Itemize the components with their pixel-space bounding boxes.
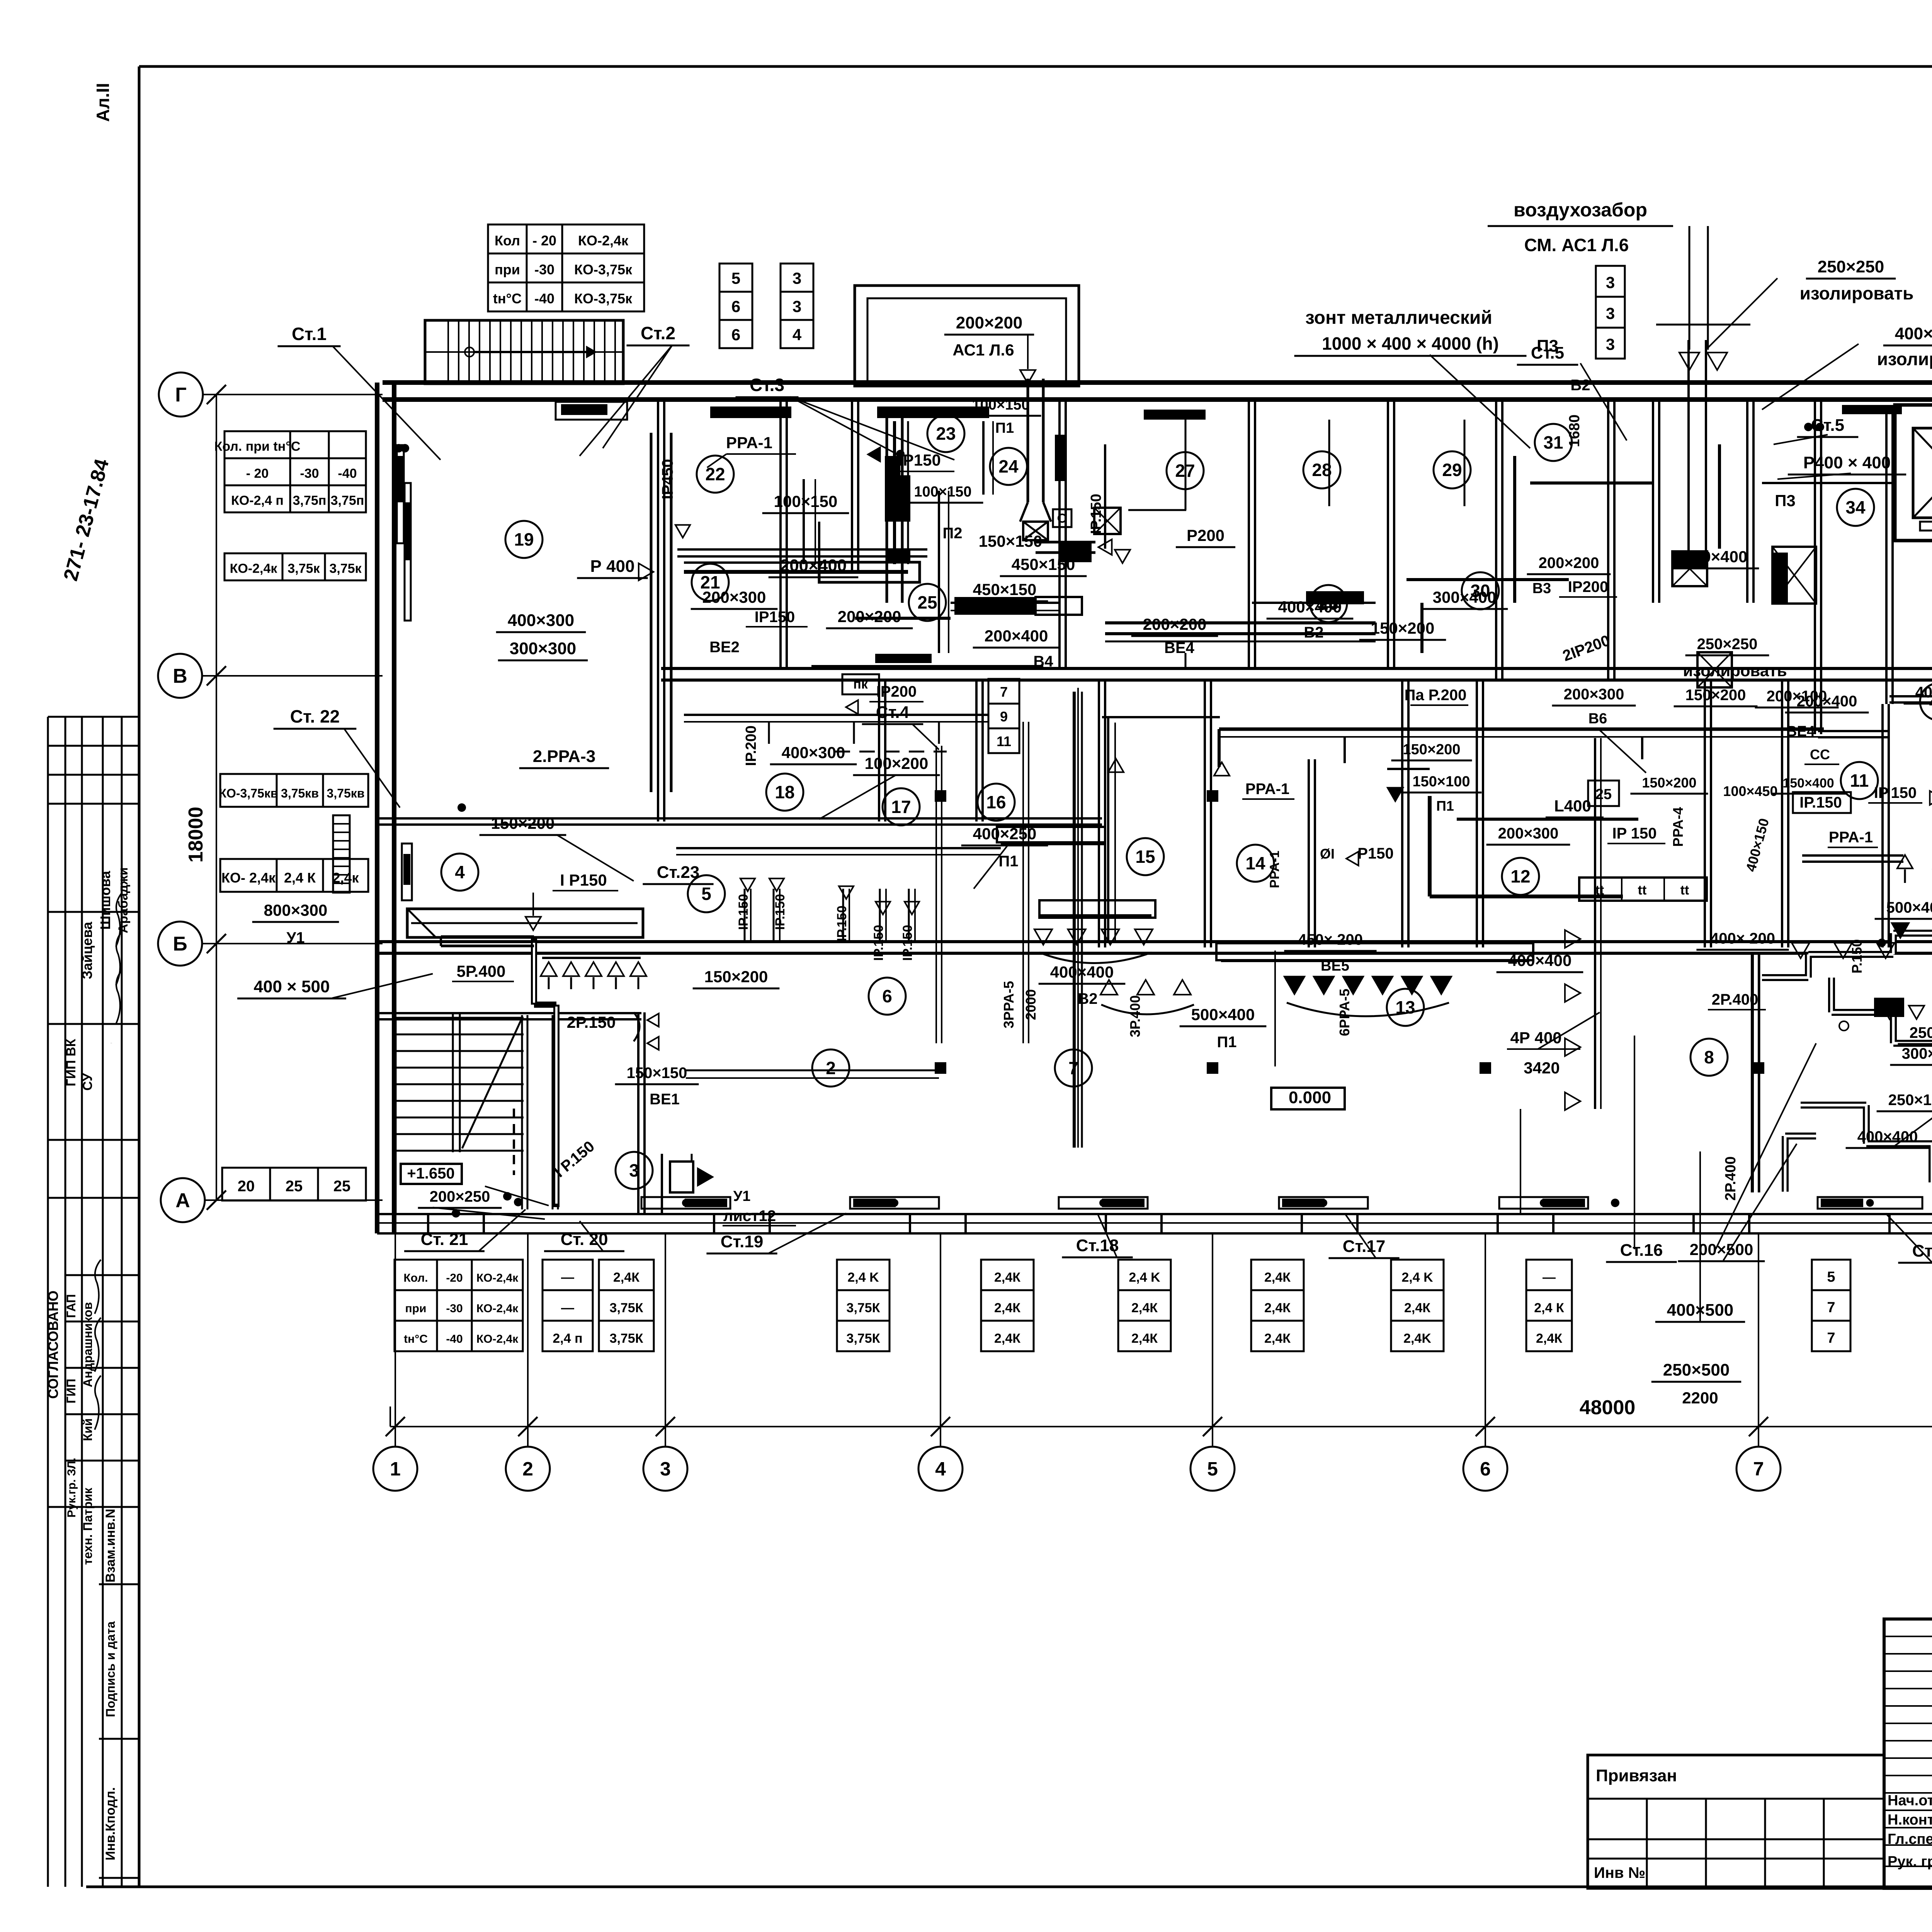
svg-text:- 20: - 20 — [532, 233, 556, 248]
svg-text:400 × 500: 400 × 500 — [254, 977, 330, 996]
svg-text:3420: 3420 — [1524, 1059, 1560, 1077]
svg-text:СУ: СУ — [80, 1073, 95, 1091]
svg-text:18000: 18000 — [185, 807, 207, 863]
svg-text:КО-3,75к: КО-3,75к — [574, 291, 633, 306]
svg-text:КО-2,4к: КО-2,4к — [578, 233, 629, 248]
svg-text:19: 19 — [514, 529, 534, 549]
svg-text:3,75п: 3,75п — [293, 493, 327, 508]
svg-text:при: при — [495, 262, 520, 277]
svg-text:25: 25 — [1595, 786, 1612, 803]
svg-text:5: 5 — [1207, 1458, 1218, 1480]
svg-text:5Р.400: 5Р.400 — [457, 962, 506, 980]
svg-text:Ст.3: Ст.3 — [750, 375, 784, 395]
svg-text:3,75к: 3,75к — [287, 561, 320, 576]
svg-text:Ст. 20: Ст. 20 — [561, 1230, 608, 1249]
svg-text:tt: tt — [1595, 883, 1604, 898]
svg-text:200×400: 200×400 — [1797, 693, 1857, 710]
svg-text:Кий: Кий — [81, 1418, 95, 1441]
svg-text:27: 27 — [1175, 461, 1195, 481]
svg-text:250×500: 250×500 — [1663, 1361, 1730, 1379]
svg-text:150×200: 150×200 — [1403, 742, 1461, 758]
svg-text:100×150: 100×150 — [914, 484, 972, 500]
svg-text:Ст. 21: Ст. 21 — [421, 1230, 468, 1249]
svg-text:7: 7 — [1827, 1299, 1835, 1316]
svg-text:6: 6 — [731, 298, 740, 316]
svg-text:IР.150: IР.150 — [736, 894, 751, 930]
svg-text:В2: В2 — [1570, 377, 1590, 394]
svg-text:5: 5 — [701, 884, 711, 904]
svg-text:2,4K: 2,4K — [1403, 1331, 1431, 1346]
svg-text:КО-2,4к: КО-2,4к — [476, 1302, 519, 1315]
svg-text:Ст.5: Ст.5 — [1531, 344, 1564, 362]
svg-text:Р200: Р200 — [1187, 526, 1225, 544]
svg-text:-40: -40 — [338, 466, 357, 481]
svg-text:пк: пк — [853, 677, 868, 692]
svg-text:5: 5 — [731, 269, 740, 287]
svg-text:4: 4 — [935, 1458, 946, 1480]
svg-text:IP450: IP450 — [659, 459, 676, 500]
svg-text:3,75п: 3,75п — [331, 493, 364, 508]
svg-text:450×150: 450×150 — [1012, 555, 1075, 573]
svg-text:воздухозабор: воздухозабор — [1514, 199, 1647, 221]
svg-text:26: 26 — [1318, 594, 1338, 614]
svg-text:1: 1 — [390, 1458, 401, 1480]
svg-text:150×100: 150×100 — [1413, 774, 1470, 790]
svg-text:tt: tt — [1638, 883, 1647, 898]
svg-text:2,4К: 2,4К — [1131, 1331, 1158, 1346]
svg-text:6: 6 — [731, 326, 740, 344]
svg-text:Ст.4: Ст.4 — [876, 703, 910, 722]
svg-text:2Р.400: 2Р.400 — [1723, 1156, 1739, 1201]
svg-text:8: 8 — [1704, 1047, 1714, 1067]
svg-text:200×400: 200×400 — [780, 556, 847, 575]
svg-text:17: 17 — [891, 797, 911, 817]
svg-text:2.РРА-3: 2.РРА-3 — [533, 747, 595, 766]
svg-text:Кол.: Кол. — [403, 1272, 428, 1284]
svg-text:КО-2,4к: КО-2,4к — [230, 561, 278, 576]
svg-text:П1: П1 — [1217, 1034, 1237, 1051]
svg-text:400×400: 400×400 — [1050, 963, 1114, 981]
svg-text:КО- 2,4к: КО- 2,4к — [221, 870, 276, 886]
svg-text:I Р150: I Р150 — [560, 871, 607, 889]
svg-text:ВЕ4: ВЕ4 — [1164, 639, 1195, 656]
svg-text:IР.150: IР.150 — [1088, 494, 1104, 534]
svg-text:—: — — [561, 1301, 574, 1315]
svg-text:2,4 K: 2,4 K — [1401, 1270, 1433, 1285]
svg-text:100×150: 100×150 — [774, 492, 838, 510]
svg-text:3,75кв: 3,75кв — [327, 786, 365, 800]
svg-text:30: 30 — [1470, 581, 1490, 601]
svg-text:24: 24 — [998, 456, 1019, 476]
svg-text:18: 18 — [775, 782, 794, 802]
svg-text:IP150: IP150 — [755, 609, 795, 626]
svg-text:Кол: Кол — [495, 233, 520, 248]
svg-text:150×200: 150×200 — [1685, 687, 1746, 704]
svg-text:3,75к: 3,75к — [329, 561, 362, 576]
svg-text:9: 9 — [1000, 709, 1008, 724]
svg-text:Взам.инв.N: Взам.инв.N — [103, 1509, 118, 1583]
svg-text:2: 2 — [826, 1058, 836, 1078]
svg-text:РРА-1: РРА-1 — [1829, 829, 1873, 846]
svg-text:2,4К: 2,4К — [1264, 1301, 1291, 1315]
svg-text:4: 4 — [455, 862, 465, 882]
svg-text:200×300: 200×300 — [1564, 686, 1624, 703]
svg-text:3,75кв: 3,75кв — [281, 786, 319, 800]
svg-text:-40: -40 — [446, 1333, 463, 1345]
svg-text:2Р.150: 2Р.150 — [567, 1013, 616, 1031]
svg-text:Зайцева: Зайцева — [79, 922, 95, 980]
svg-text:3,75К: 3,75К — [847, 1331, 880, 1346]
svg-text:Гл.спец.: Гл.спец. — [1888, 1831, 1932, 1847]
svg-text:IP.200: IP.200 — [743, 726, 759, 766]
svg-text:3: 3 — [1606, 274, 1615, 292]
svg-text:2,4К: 2,4К — [1264, 1270, 1291, 1285]
svg-text:150×200: 150×200 — [1642, 775, 1696, 791]
svg-text:У1: У1 — [286, 929, 304, 946]
svg-text:Ст.23: Ст.23 — [657, 863, 700, 882]
svg-text:tн°С: tн°С — [493, 291, 522, 306]
svg-text:21: 21 — [700, 572, 720, 592]
svg-text:IР.150: IР.150 — [900, 925, 915, 961]
svg-text:Рук. гр.: Рук. гр. — [1888, 1854, 1932, 1870]
svg-text:200×200: 200×200 — [838, 607, 901, 626]
svg-text:КО-3,75кв: КО-3,75кв — [219, 786, 278, 800]
svg-text:Па Р.200: Па Р.200 — [1405, 687, 1467, 704]
svg-text:11: 11 — [997, 733, 1011, 749]
svg-text:300×300: 300×300 — [510, 639, 577, 658]
svg-text:Ст.5: Ст.5 — [1811, 416, 1844, 435]
svg-text:Нач.отд: Нач.отд — [1888, 1793, 1932, 1809]
svg-text:РРА-1: РРА-1 — [1245, 781, 1289, 798]
svg-text:6: 6 — [1480, 1458, 1491, 1480]
svg-text:150×400: 150×400 — [1782, 776, 1834, 791]
svg-text:23: 23 — [936, 423, 956, 444]
svg-text:400×300: 400×300 — [782, 743, 845, 762]
svg-text:3: 3 — [793, 269, 801, 287]
svg-text:3Р.400: 3Р.400 — [1127, 995, 1143, 1037]
svg-text:—: — — [561, 1270, 574, 1285]
svg-text:20: 20 — [238, 1178, 255, 1195]
svg-text:В2: В2 — [1304, 624, 1323, 641]
svg-text:250×250: 250×250 — [1697, 636, 1758, 653]
svg-text:13: 13 — [1395, 997, 1415, 1017]
svg-text:300×400: 300×400 — [1684, 548, 1748, 566]
svg-text:2,4К: 2,4К — [1536, 1331, 1562, 1346]
svg-text:2Р.400: 2Р.400 — [1712, 991, 1759, 1008]
svg-text:-30: -30 — [534, 262, 554, 277]
svg-text:Привязан: Привязан — [1596, 1766, 1677, 1785]
svg-text:12: 12 — [1510, 866, 1530, 886]
svg-text:зонт металлический: зонт металлический — [1305, 308, 1492, 328]
svg-text:4Р 400: 4Р 400 — [1510, 1029, 1561, 1047]
svg-text:КО-2,4 п: КО-2,4 п — [231, 493, 284, 508]
svg-text:15: 15 — [1135, 847, 1155, 867]
svg-text:IP200: IP200 — [1568, 578, 1609, 595]
svg-text:400×250: 400×250 — [973, 825, 1037, 843]
svg-text:2,4К: 2,4К — [994, 1270, 1020, 1285]
svg-text:Кол. при tн°С: Кол. при tн°С — [214, 439, 301, 454]
svg-text:200×500: 200×500 — [1690, 1240, 1753, 1259]
svg-text:200×300: 200×300 — [1498, 825, 1559, 842]
svg-text:П3: П3 — [1775, 492, 1796, 510]
svg-text:450×150: 450×150 — [973, 580, 1037, 599]
svg-text:-30: -30 — [300, 466, 319, 481]
svg-text:3: 3 — [660, 1458, 671, 1480]
svg-text:2,4К: 2,4К — [994, 1301, 1020, 1315]
svg-text:изолировать: изолировать — [1683, 662, 1787, 680]
svg-text:2,4К: 2,4К — [1131, 1301, 1158, 1315]
svg-text:В4: В4 — [1033, 653, 1053, 670]
svg-text:+1.650: +1.650 — [407, 1165, 454, 1182]
svg-text:IР200: IР200 — [876, 683, 917, 700]
svg-text:150×200: 150×200 — [1371, 619, 1435, 637]
svg-text:изолировать: изолировать — [1800, 283, 1914, 303]
svg-text:АС1 Л.6: АС1 Л.6 — [952, 341, 1014, 359]
svg-text:Р400 × 400: Р400 × 400 — [1803, 453, 1891, 472]
svg-text:2200: 2200 — [1682, 1389, 1718, 1407]
svg-text:Инв.Кподл.: Инв.Кподл. — [103, 1787, 118, 1861]
svg-text:РРА-4: РРА-4 — [1670, 807, 1686, 847]
svg-text:300×250: 300×250 — [1902, 1045, 1932, 1062]
svg-text:400×400: 400×400 — [1895, 324, 1932, 343]
svg-text:29: 29 — [1442, 460, 1462, 480]
svg-text:5: 5 — [1827, 1269, 1835, 1285]
svg-text:СМ. АС1 Л.6: СМ. АС1 Л.6 — [1524, 235, 1629, 255]
svg-text:В6: В6 — [1588, 711, 1607, 727]
svg-text:4: 4 — [793, 326, 802, 344]
svg-text:РРА-1: РРА-1 — [1267, 850, 1282, 888]
svg-text:Ал.II: Ал.II — [93, 83, 113, 122]
svg-text:лист12: лист12 — [723, 1207, 776, 1225]
svg-text:- 20: - 20 — [246, 466, 269, 481]
svg-text:25: 25 — [286, 1178, 303, 1195]
svg-text:6РРА-5: 6РРА-5 — [1337, 989, 1352, 1036]
svg-text:2,4К: 2,4К — [1264, 1331, 1291, 1346]
svg-text:Ст.1: Ст.1 — [292, 324, 327, 344]
svg-text:2,4 К: 2,4 К — [1534, 1301, 1564, 1315]
svg-text:СС: СС — [1810, 747, 1830, 762]
svg-text:150×200: 150×200 — [704, 968, 768, 986]
svg-text:3,75К: 3,75К — [610, 1331, 643, 1346]
svg-text:2,4 K: 2,4 K — [1129, 1270, 1160, 1285]
svg-text:IР.150: IР.150 — [835, 905, 849, 941]
svg-text:150×200: 150×200 — [491, 814, 555, 832]
svg-text:tн°С: tн°С — [404, 1333, 428, 1345]
svg-text:П2: П2 — [943, 525, 963, 542]
svg-text:ØI: ØI — [1320, 846, 1335, 862]
svg-text:40: 40 — [1929, 692, 1932, 711]
svg-text:400×400: 400×400 — [1857, 1128, 1918, 1145]
svg-text:31: 31 — [1543, 432, 1563, 452]
svg-text:IP 150: IP 150 — [1612, 825, 1657, 842]
svg-text:450× 200: 450× 200 — [1298, 931, 1363, 948]
svg-text:Ст.19: Ст.19 — [721, 1232, 764, 1251]
svg-text:IP150: IP150 — [898, 451, 941, 469]
svg-text:3: 3 — [793, 298, 801, 316]
svg-text:ВЕ4: ВЕ4 — [1786, 723, 1815, 740]
svg-text:2,4к: 2,4к — [332, 870, 359, 886]
svg-text:Ст.16: Ст.16 — [1620, 1241, 1663, 1260]
svg-text:150×150: 150×150 — [627, 1065, 687, 1082]
svg-text:Ст.17: Ст.17 — [1343, 1237, 1386, 1256]
svg-text:3,75К: 3,75К — [610, 1301, 643, 1315]
svg-text:11: 11 — [1850, 770, 1869, 791]
svg-text:3РРА-5: 3РРА-5 — [1001, 981, 1017, 1029]
svg-text:6: 6 — [882, 986, 892, 1006]
svg-text:Инв №: Инв № — [1594, 1864, 1645, 1881]
svg-text:IР.150: IР.150 — [1799, 794, 1842, 811]
svg-text:tt: tt — [1680, 883, 1689, 898]
svg-text:25: 25 — [917, 592, 937, 612]
svg-text:СОГЛАСОВАНО: СОГЛАСОВАНО — [45, 1291, 61, 1399]
svg-text:150×150: 150×150 — [979, 532, 1043, 550]
svg-text:КО-2,4к: КО-2,4к — [476, 1333, 519, 1345]
svg-text:200×200: 200×200 — [1539, 554, 1599, 571]
svg-text:ГИП: ГИП — [64, 1379, 78, 1403]
svg-text:3: 3 — [1606, 304, 1615, 323]
svg-text:500×400: 500×400 — [1886, 899, 1932, 916]
svg-text:3,75К: 3,75К — [847, 1301, 880, 1315]
svg-text:ВЕ2: ВЕ2 — [709, 639, 740, 656]
svg-text:7: 7 — [1000, 684, 1008, 700]
svg-text:Рук.гр. ЗЛ.: Рук.гр. ЗЛ. — [65, 1458, 78, 1518]
svg-text:-40: -40 — [534, 291, 554, 306]
svg-text:изолировать: изолировать — [1877, 349, 1932, 369]
svg-text:П1: П1 — [999, 853, 1019, 870]
svg-text:—: — — [1543, 1270, 1556, 1285]
svg-text:-30: -30 — [446, 1302, 463, 1315]
svg-text:14: 14 — [1245, 853, 1265, 873]
svg-text:3: 3 — [1606, 335, 1615, 354]
svg-text:250×150: 250×150 — [1888, 1092, 1932, 1109]
svg-text:2000: 2000 — [1023, 989, 1039, 1020]
svg-text:Н.контр: Н.контр — [1888, 1812, 1932, 1828]
svg-text:IP.150: IP.150 — [1874, 784, 1917, 801]
svg-text:IР.150: IР.150 — [871, 925, 886, 961]
svg-text:Андрашников: Андрашников — [81, 1302, 95, 1388]
svg-text:2,4К: 2,4К — [1404, 1301, 1430, 1315]
svg-text:16: 16 — [986, 792, 1006, 812]
svg-text:250×150: 250×150 — [1910, 1024, 1932, 1041]
svg-text:КО-2,4к: КО-2,4к — [476, 1272, 519, 1284]
svg-text:В2: В2 — [1078, 990, 1097, 1007]
svg-text:В3: В3 — [1532, 580, 1551, 597]
svg-text:IР.150: IР.150 — [773, 894, 787, 930]
svg-text:400×300: 400×300 — [508, 611, 575, 630]
svg-text:В: В — [173, 665, 187, 687]
svg-text:Р150: Р150 — [1357, 845, 1393, 862]
svg-text:2,4 п: 2,4 п — [553, 1331, 582, 1346]
svg-text:48000: 48000 — [1580, 1396, 1636, 1419]
svg-text:РРА-1: РРА-1 — [726, 434, 772, 452]
svg-text:400×400: 400×400 — [1508, 951, 1572, 969]
svg-text:Р.150: Р.150 — [1849, 939, 1865, 974]
svg-text:200×400: 200×400 — [985, 627, 1048, 645]
svg-text:Ст.2: Ст.2 — [641, 323, 675, 343]
svg-text:400× 200: 400× 200 — [1710, 930, 1775, 947]
svg-text:28: 28 — [1312, 460, 1332, 480]
svg-text:100×450: 100×450 — [1723, 783, 1777, 799]
svg-text:Подпись и дата: Подпись и дата — [104, 1621, 117, 1717]
svg-text:Ст. 22: Ст. 22 — [290, 706, 340, 726]
svg-text:7: 7 — [1068, 1058, 1078, 1078]
svg-text:100×200: 100×200 — [865, 754, 929, 772]
svg-text:Р 400: Р 400 — [590, 557, 635, 576]
svg-text:22: 22 — [705, 464, 725, 484]
svg-text:200×250: 200×250 — [430, 1188, 490, 1205]
svg-text:100×150: 100×150 — [972, 397, 1030, 413]
svg-text:2,4К: 2,4К — [613, 1270, 639, 1285]
svg-text:при: при — [405, 1302, 427, 1315]
svg-text:техн. Патрик: техн. Патрик — [81, 1487, 95, 1565]
svg-text:800×300: 800×300 — [264, 901, 328, 919]
svg-text:ВЕ5: ВЕ5 — [1321, 958, 1349, 974]
svg-text:0.000: 0.000 — [1289, 1088, 1331, 1107]
svg-text:250×250: 250×250 — [1818, 257, 1884, 276]
svg-text:ВЕ1: ВЕ1 — [650, 1091, 680, 1108]
svg-text:П1: П1 — [1436, 798, 1454, 814]
svg-text:200×200: 200×200 — [1143, 615, 1207, 633]
svg-text:2: 2 — [522, 1458, 533, 1480]
svg-text:500×400: 500×400 — [1191, 1005, 1255, 1024]
svg-text:А: А — [175, 1189, 190, 1212]
svg-text:Шишова: Шишова — [97, 871, 113, 930]
svg-text:25: 25 — [333, 1178, 351, 1195]
svg-text:Б: Б — [173, 933, 187, 955]
svg-text:П1: П1 — [995, 420, 1014, 436]
svg-text:ГАП: ГАП — [64, 1294, 78, 1318]
svg-text:Г: Г — [175, 384, 186, 406]
svg-text:-20: -20 — [446, 1272, 463, 1284]
svg-text:КО-3,75к: КО-3,75к — [574, 262, 633, 277]
svg-text:2,4 К: 2,4 К — [284, 870, 316, 886]
svg-text:200×200: 200×200 — [956, 313, 1023, 332]
svg-text:7: 7 — [1827, 1330, 1835, 1346]
svg-text:7: 7 — [1753, 1458, 1764, 1480]
svg-text:2,4 K: 2,4 K — [847, 1270, 879, 1285]
svg-text:34: 34 — [1845, 497, 1866, 517]
svg-text:L400: L400 — [1554, 797, 1591, 815]
svg-text:1000 × 400 × 4000 (h): 1000 × 400 × 4000 (h) — [1322, 333, 1499, 354]
svg-text:ГИП ВК: ГИП ВК — [64, 1039, 78, 1086]
svg-text:2,4К: 2,4К — [994, 1331, 1020, 1346]
svg-text:3: 3 — [629, 1160, 639, 1180]
svg-text:У1: У1 — [733, 1188, 751, 1204]
